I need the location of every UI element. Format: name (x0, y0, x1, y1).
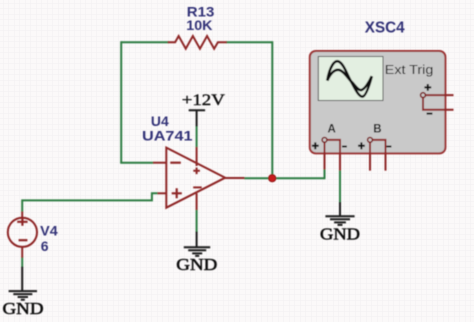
channel B minus mark (387, 146, 392, 148)
inverting input minus mark (170, 162, 181, 164)
ext trig minus mark (427, 113, 433, 115)
ground under scope (320, 202, 360, 244)
V+ polarity mark (193, 168, 200, 175)
resistor R13 (168, 4, 227, 49)
wire V4 to non-inverting input (22, 193, 158, 212)
channel A pin stubs (325, 140, 341, 171)
wire feedback top-left horizontal (121, 41, 169, 43)
svg-text:XSC4: XSC4 (365, 20, 405, 37)
non-inverting input plus mark (172, 188, 182, 198)
svg-text:V4: V4 (40, 223, 58, 239)
ground under op-amp (176, 232, 217, 274)
pin stub V- (196, 193, 198, 210)
svg-text:UA741: UA741 (142, 128, 193, 144)
svg-text:A: A (327, 123, 335, 135)
channel A terminal (322, 138, 327, 143)
op-amp U4 (142, 113, 245, 210)
wire feedback top-right horizontal (226, 41, 272, 43)
wire op-amp V- to ground (196, 210, 198, 233)
scope sine wave inner (327, 70, 372, 90)
svg-text:B: B (373, 123, 381, 135)
scope screen (318, 57, 383, 101)
power +12V (182, 92, 226, 126)
pin stub non-inverting input (158, 192, 167, 194)
svg-text:GND: GND (176, 255, 217, 274)
pin stub inverting input (153, 162, 166, 164)
pin stub V+ (196, 147, 198, 166)
plus mark (17, 218, 27, 226)
pin stub V4 plus (21, 212, 23, 218)
voltage source V4 (8, 212, 58, 258)
svg-text:GND: GND (320, 225, 360, 244)
wire to inverting input (120, 162, 153, 164)
V- polarity mark (193, 186, 202, 188)
wire feedback right vertical (271, 41, 273, 178)
ext trig plus mark (424, 84, 431, 91)
ext trig pin stubs (423, 95, 454, 110)
scope sine wave outer (327, 61, 372, 96)
wire scope A- to ground (339, 170, 341, 203)
svg-text:Ext Trig: Ext Trig (385, 63, 434, 77)
wire riser to scope A+ (324, 169, 326, 179)
svg-text:GND: GND (3, 299, 44, 318)
minus mark (19, 239, 28, 241)
channel B pin stubs (370, 140, 386, 171)
ground under V4 (3, 267, 44, 318)
channel A minus mark (342, 146, 347, 148)
channel B plus mark (358, 142, 365, 149)
wire output horizontal (244, 177, 325, 179)
pin stub V4 minus (21, 247, 23, 258)
svg-text:6: 6 (41, 238, 49, 254)
ext trig terminal (421, 93, 426, 98)
wire feedback left vertical (120, 41, 122, 162)
svg-text:10K: 10K (186, 17, 212, 33)
svg-text:+12V: +12V (182, 92, 226, 109)
channel B terminal (368, 138, 373, 143)
channel A plus mark (312, 142, 319, 149)
oscilloscope XSC4 (310, 20, 454, 171)
node output junction (269, 175, 276, 182)
pin stub output (225, 177, 245, 179)
wire +12V to op-amp V+ (196, 126, 198, 147)
wire V4 minus to ground (21, 257, 23, 267)
